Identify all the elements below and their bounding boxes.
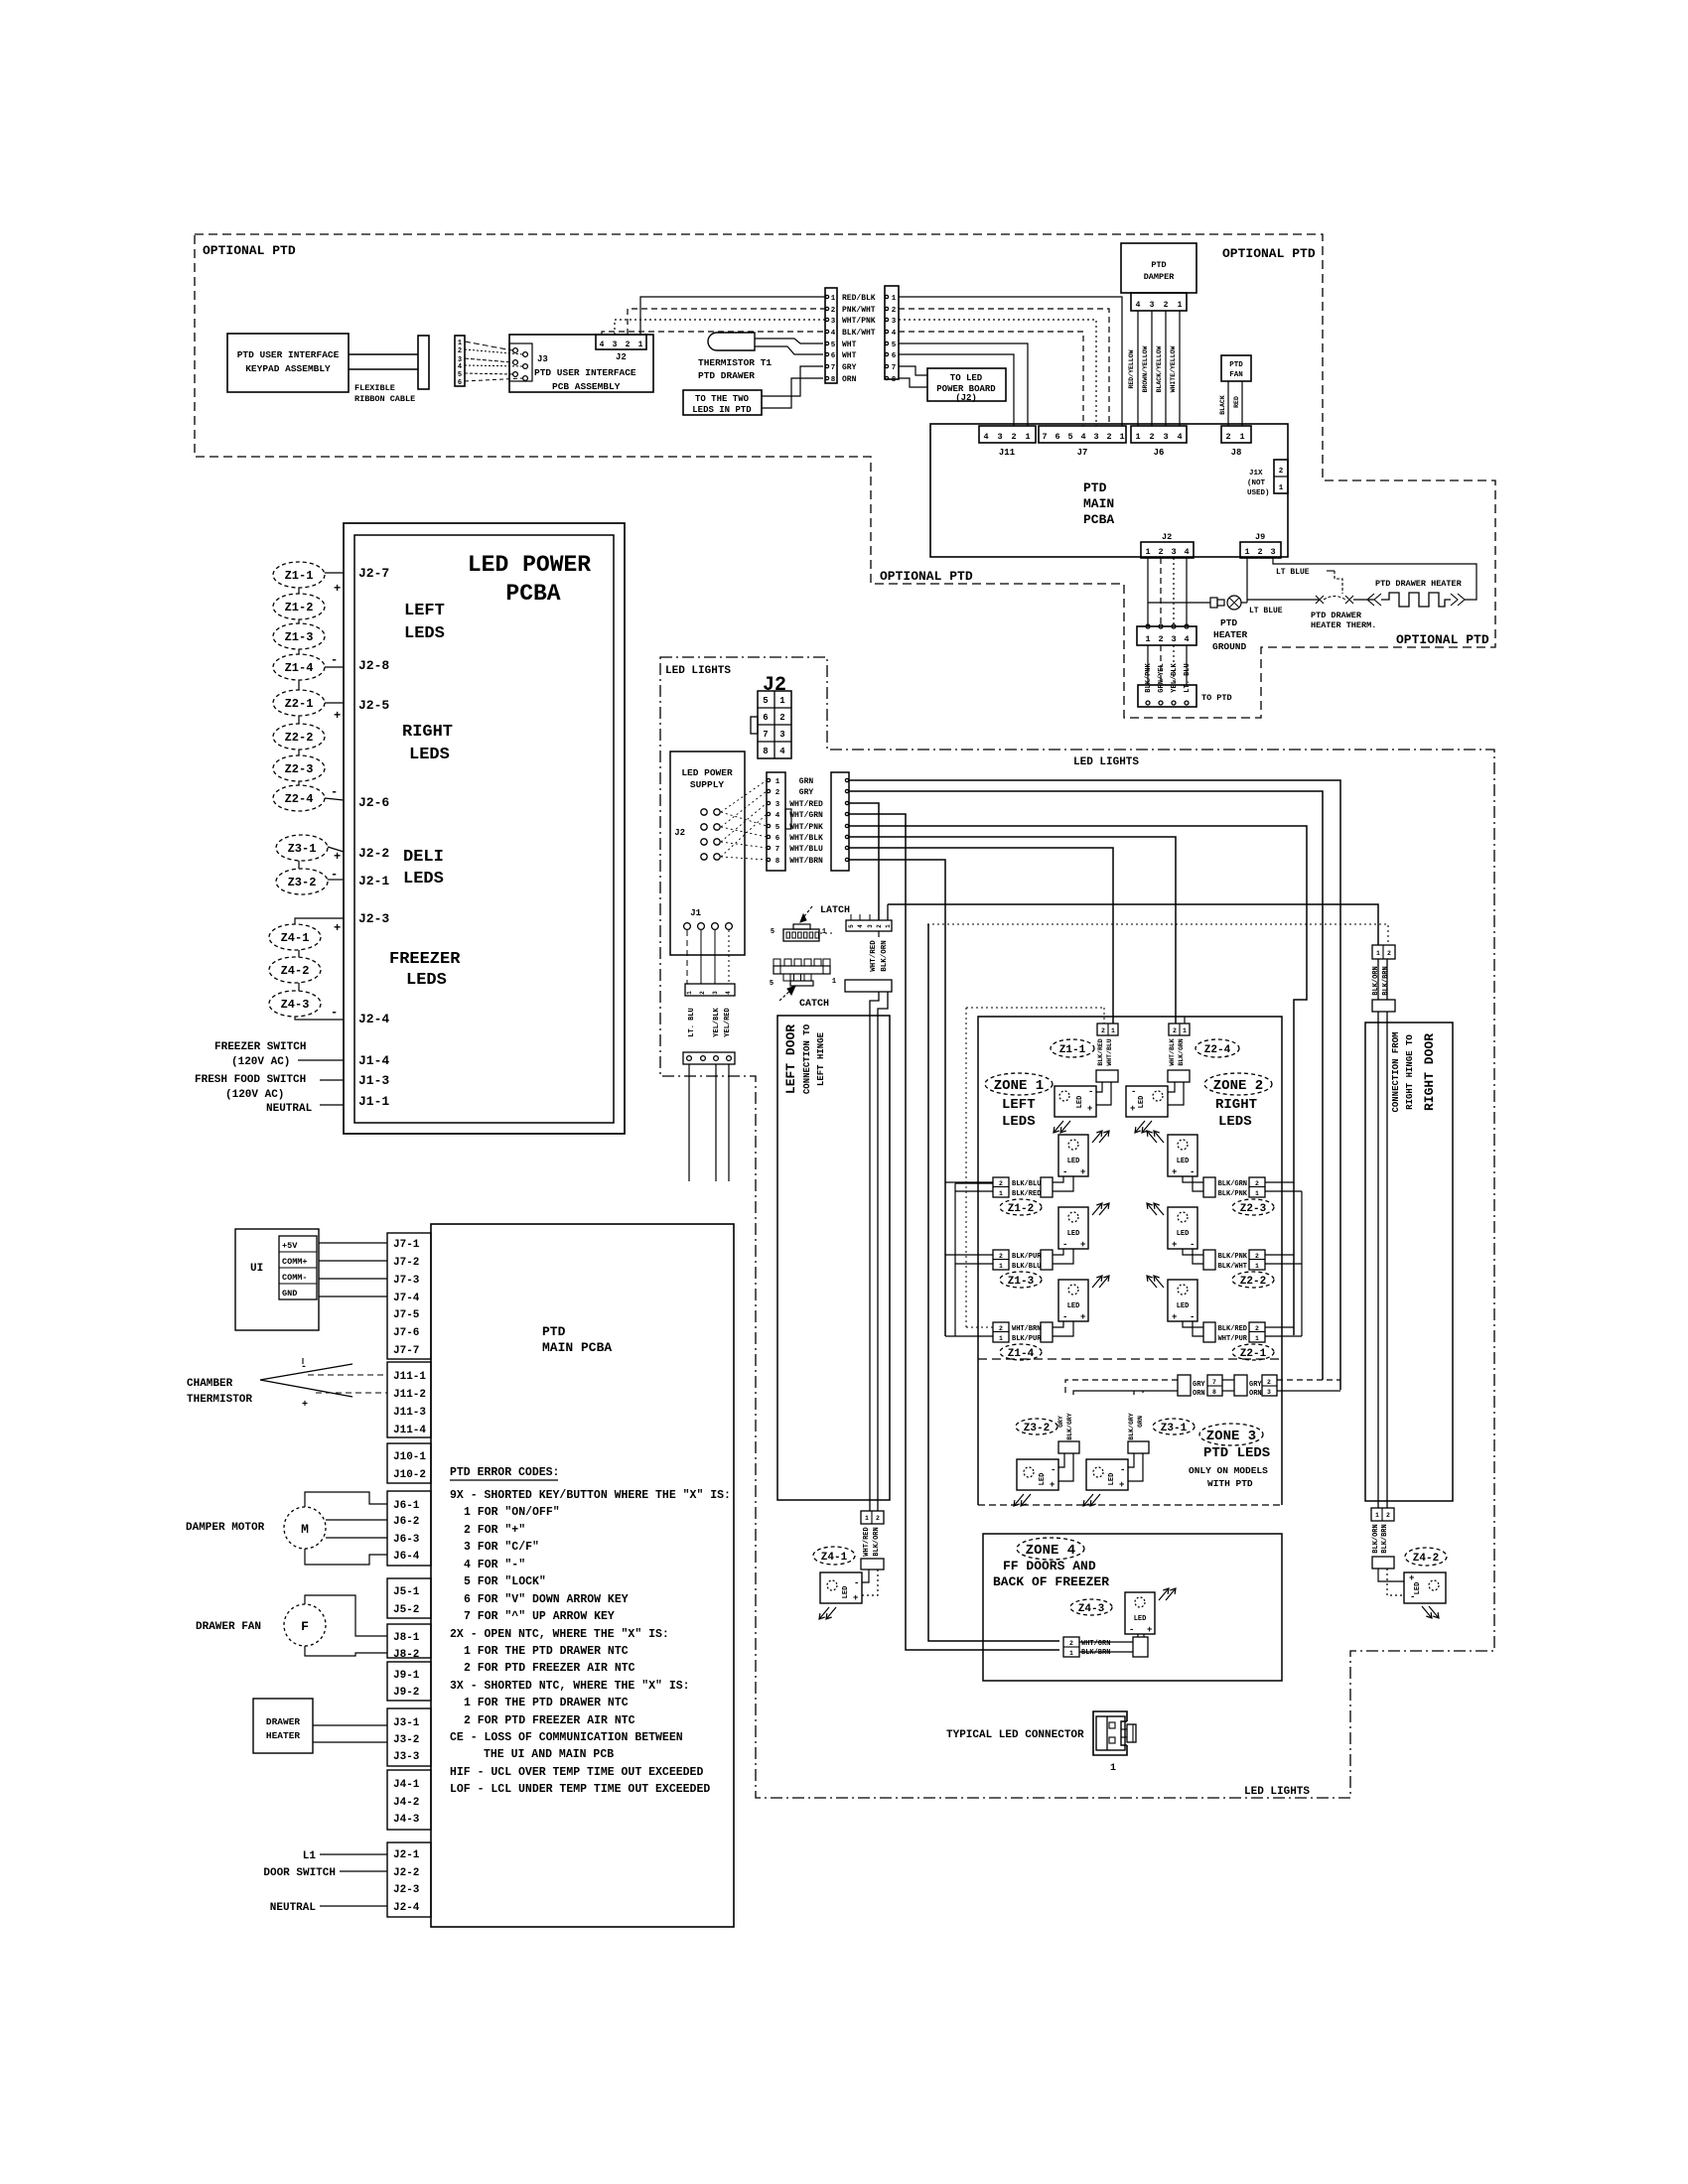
svg-text:-: - bbox=[1129, 1625, 1134, 1635]
svg-text:WHT/GRN: WHT/GRN bbox=[1081, 1640, 1110, 1648]
svg-text:LEDS: LEDS bbox=[404, 624, 445, 643]
svg-text:2: 2 bbox=[626, 341, 631, 349]
svg-text:2: 2 bbox=[1386, 1512, 1390, 1519]
svg-text:3: 3 bbox=[712, 991, 719, 995]
svg-text:MAIN: MAIN bbox=[1083, 496, 1114, 511]
svg-text:PNK/WHT: PNK/WHT bbox=[842, 306, 876, 315]
left bus second line bbox=[954, 1183, 956, 1336]
svg-text:1 FOR THE PTD DRAWER NTC: 1 FOR THE PTD DRAWER NTC bbox=[464, 1697, 629, 1709]
svg-text:-: - bbox=[1190, 1240, 1195, 1250]
svg-text:WHT/BLK: WHT/BLK bbox=[1169, 1038, 1176, 1065]
UI box bbox=[235, 1229, 319, 1330]
svg-text:PCB ASSEMBLY: PCB ASSEMBLY bbox=[552, 381, 621, 392]
PTD drawer heater thermal switch bbox=[1316, 596, 1324, 604]
svg-text:2X - OPEN NTC, WHERE THE "X" I: 2X - OPEN NTC, WHERE THE "X" IS: bbox=[450, 1628, 669, 1641]
svg-text:-: - bbox=[331, 785, 338, 799]
svg-text:FREEZER SWITCH: FREEZER SWITCH bbox=[214, 1041, 306, 1053]
svg-text:J7-2: J7-2 bbox=[393, 1257, 419, 1269]
svg-text:PTD: PTD bbox=[542, 1324, 566, 1339]
connector Z4-3 bbox=[1063, 1637, 1079, 1657]
wires Z1-3 to bus bbox=[945, 1254, 993, 1256]
svg-text:Z4-3: Z4-3 bbox=[281, 998, 310, 1012]
svg-text:PCBA: PCBA bbox=[1083, 512, 1114, 527]
svg-text:PTD: PTD bbox=[1151, 260, 1166, 270]
svg-text:CHAMBER: CHAMBER bbox=[187, 1378, 233, 1390]
connector J10 (lower PCBA) bbox=[387, 1443, 431, 1483]
svg-text:GRY: GRY bbox=[1057, 1416, 1064, 1428]
svg-text:1: 1 bbox=[775, 778, 780, 786]
svg-text:J3: J3 bbox=[537, 354, 548, 364]
svg-text:4: 4 bbox=[1177, 432, 1182, 442]
svg-text:4: 4 bbox=[779, 747, 785, 756]
svg-text:Z4-2: Z4-2 bbox=[281, 964, 310, 978]
svg-text:1: 1 bbox=[831, 295, 836, 303]
svg-text:J1-3: J1-3 bbox=[358, 1073, 389, 1088]
svg-text:ORN: ORN bbox=[1193, 1390, 1205, 1398]
svg-text:J3-1: J3-1 bbox=[393, 1717, 420, 1729]
svg-text:PTD USER INTERFACE: PTD USER INTERFACE bbox=[534, 367, 636, 378]
optional PTD boundary (dashed) bbox=[195, 234, 1495, 718]
svg-text:Z2-4: Z2-4 bbox=[285, 792, 314, 806]
svg-text:7: 7 bbox=[831, 364, 836, 372]
LED Z4-3 bbox=[1125, 1592, 1155, 1634]
svg-text:7: 7 bbox=[1212, 1379, 1216, 1386]
svg-text:YEL/BLK: YEL/BLK bbox=[713, 1007, 721, 1036]
wires J2 PCB up to connector rows bbox=[640, 297, 825, 335]
svg-text:CONNECTION FROM: CONNECTION FROM bbox=[1391, 1031, 1401, 1112]
to LED power board (J2) box bbox=[927, 368, 1006, 401]
svg-text:J4-1: J4-1 bbox=[393, 1779, 420, 1791]
to the two LEDs in PTD box bbox=[683, 390, 762, 415]
svg-text:-: - bbox=[331, 653, 338, 667]
node Z1-4 bbox=[273, 654, 325, 680]
svg-text:BLK/PNK: BLK/PNK bbox=[1218, 1190, 1248, 1198]
svg-text:LED: LED bbox=[1067, 1158, 1080, 1165]
svg-text:J2-4: J2-4 bbox=[358, 1012, 389, 1026]
svg-text:BLACK: BLACK bbox=[1219, 395, 1226, 415]
svg-text:2: 2 bbox=[1173, 1027, 1177, 1034]
svg-text:2: 2 bbox=[1255, 1253, 1259, 1260]
svg-text:OPTIONAL PTD: OPTIONAL PTD bbox=[203, 243, 296, 258]
svg-text:LED POWER: LED POWER bbox=[468, 552, 591, 578]
zone 1/2/3 outer box bbox=[978, 1017, 1282, 1505]
svg-text:1: 1 bbox=[1119, 432, 1124, 442]
svg-text:TO LED: TO LED bbox=[950, 373, 983, 383]
svg-text:-: - bbox=[1062, 1167, 1067, 1177]
svg-text:PCBA: PCBA bbox=[505, 581, 560, 607]
svg-text:HEATER: HEATER bbox=[1213, 629, 1248, 640]
svg-text:OPTIONAL PTD: OPTIONAL PTD bbox=[880, 569, 973, 584]
svg-text:-: - bbox=[1051, 1465, 1055, 1475]
svg-text:OPTIONAL PTD: OPTIONAL PTD bbox=[1396, 632, 1489, 647]
wires into left door bbox=[878, 931, 880, 937]
svg-text:1 FOR THE PTD DRAWER NTC: 1 FOR THE PTD DRAWER NTC bbox=[464, 1645, 629, 1658]
svg-text:NEUTRAL: NEUTRAL bbox=[270, 1902, 317, 1914]
5-pin door connector bbox=[846, 920, 892, 931]
svg-text:4: 4 bbox=[1080, 432, 1085, 442]
links between ovals bbox=[298, 588, 300, 594]
node Z2-1 bbox=[273, 690, 325, 716]
svg-text:J1X: J1X bbox=[1249, 470, 1263, 478]
LED lights dashed boundary bbox=[660, 657, 1494, 1798]
svg-text:+: + bbox=[1172, 1312, 1177, 1322]
svg-text:1: 1 bbox=[1375, 1512, 1379, 1519]
LED Z1-1 bbox=[1055, 1086, 1096, 1117]
connector J3 (lower PCBA) bbox=[387, 1708, 431, 1766]
svg-text:BLK/BRN: BLK/BRN bbox=[1081, 1649, 1110, 1657]
LED Z2-3 bbox=[1168, 1135, 1197, 1176]
svg-text:WHT/PNK: WHT/PNK bbox=[789, 823, 823, 832]
wires connector to PTD main PCBA J7/J11 bbox=[899, 297, 1122, 426]
svg-text:J7-7: J7-7 bbox=[393, 1345, 419, 1357]
svg-text:SUPPLY: SUPPLY bbox=[690, 779, 725, 790]
right door top connector 1/2 bbox=[1372, 945, 1395, 959]
svg-text:2: 2 bbox=[779, 713, 784, 723]
connector J7 bbox=[1039, 426, 1126, 443]
svg-text:LT. BLU: LT. BLU bbox=[688, 1008, 696, 1036]
svg-text:1: 1 bbox=[1111, 1027, 1115, 1034]
svg-text:2 FOR "+": 2 FOR "+" bbox=[464, 1524, 525, 1537]
ZONE 3 label bbox=[1199, 1424, 1263, 1445]
typical LED connector bbox=[1093, 1711, 1127, 1755]
dashed wires J3 to PCB circles bbox=[465, 341, 512, 350]
PTD damper bbox=[1121, 243, 1196, 293]
svg-text:PTD: PTD bbox=[1220, 617, 1237, 628]
svg-text:LED LIGHTS: LED LIGHTS bbox=[1244, 1786, 1310, 1798]
node Z1-1 bbox=[1051, 1039, 1094, 1057]
svg-text:Z2-1: Z2-1 bbox=[1240, 1348, 1267, 1360]
wires Z1-4 to bus bbox=[966, 1326, 993, 1328]
svg-text:THERMISTOR: THERMISTOR bbox=[187, 1394, 252, 1406]
svg-text:Z3-2: Z3-2 bbox=[288, 876, 317, 889]
svg-text:+: + bbox=[1172, 1167, 1177, 1177]
svg-text:Z2-2: Z2-2 bbox=[1240, 1276, 1266, 1288]
svg-text:J2-7: J2-7 bbox=[358, 566, 389, 581]
svg-text:+: + bbox=[1080, 1312, 1085, 1322]
bus connector (right bar) bbox=[831, 772, 849, 871]
svg-text:OPTIONAL PTD: OPTIONAL PTD bbox=[1222, 246, 1316, 261]
svg-text:3 FOR "C/F": 3 FOR "C/F" bbox=[464, 1541, 539, 1554]
zone 3 connector pair GRY/ORN bbox=[1178, 1375, 1191, 1396]
svg-text:3: 3 bbox=[867, 924, 874, 928]
PTD main PCBA (upper) bbox=[930, 424, 1288, 557]
svg-text:+: + bbox=[334, 582, 341, 596]
svg-text:J10-2: J10-2 bbox=[393, 1469, 426, 1481]
svg-text:WHT/BRN: WHT/BRN bbox=[789, 857, 823, 866]
wires Z2-3 to bus bbox=[1265, 1181, 1294, 1183]
connector Z1-4 bbox=[1041, 1322, 1053, 1342]
svg-text:J9-1: J9-1 bbox=[393, 1670, 420, 1682]
svg-text:TYPICAL LED CONNECTOR: TYPICAL LED CONNECTOR bbox=[946, 1729, 1084, 1741]
left door connection box bbox=[777, 1016, 890, 1500]
svg-text:-: - bbox=[1062, 1312, 1067, 1322]
svg-text:LED: LED bbox=[1177, 1302, 1190, 1310]
svg-text:RIGHT: RIGHT bbox=[1215, 1097, 1257, 1113]
svg-text:Z3-1: Z3-1 bbox=[288, 842, 317, 856]
svg-text:J6-4: J6-4 bbox=[393, 1551, 420, 1563]
wires Z1-2 to bus bbox=[945, 1181, 993, 1183]
svg-text:7 FOR "^" UP ARROW KEY: 7 FOR "^" UP ARROW KEY bbox=[464, 1610, 615, 1623]
svg-text:1: 1 bbox=[1239, 432, 1244, 442]
PTD user interface PCB assembly bbox=[509, 335, 653, 392]
svg-text:8: 8 bbox=[763, 747, 768, 756]
svg-text:GROUND: GROUND bbox=[1212, 641, 1247, 652]
connector J2 on PCB assembly bbox=[596, 335, 646, 349]
svg-text:+: + bbox=[1080, 1167, 1085, 1177]
svg-text:J1-4: J1-4 bbox=[358, 1053, 389, 1068]
svg-text:Z4-1: Z4-1 bbox=[821, 1552, 848, 1564]
svg-text:+: + bbox=[334, 921, 341, 935]
LED Z1-4 bbox=[1058, 1280, 1088, 1321]
svg-text:LEDS IN PTD: LEDS IN PTD bbox=[692, 405, 752, 415]
svg-text:BLK/WHT: BLK/WHT bbox=[842, 329, 876, 338]
wires UI to J7 bbox=[319, 1242, 387, 1244]
svg-text:5: 5 bbox=[763, 696, 768, 706]
PTD drawer heater element bbox=[1353, 599, 1374, 601]
svg-text:6: 6 bbox=[763, 713, 768, 723]
svg-text:LED: LED bbox=[1067, 1302, 1080, 1310]
svg-text:Z1-1: Z1-1 bbox=[1059, 1044, 1086, 1056]
svg-text:1: 1 bbox=[686, 991, 693, 995]
svg-text:LED LIGHTS: LED LIGHTS bbox=[665, 665, 731, 677]
svg-text:J6-3: J6-3 bbox=[393, 1534, 420, 1546]
svg-text:Z2-3: Z2-3 bbox=[1240, 1203, 1267, 1215]
svg-text:CE - LOSS OF COMMUNICATION BET: CE - LOSS OF COMMUNICATION BETWEEN bbox=[450, 1731, 683, 1744]
svg-text:ORN: ORN bbox=[1249, 1390, 1262, 1398]
svg-text:BLK/ORN: BLK/ORN bbox=[1372, 1524, 1380, 1553]
svg-text:LEDS: LEDS bbox=[403, 870, 444, 888]
svg-text:COMM+: COMM+ bbox=[282, 1257, 308, 1267]
right door bottom connector bbox=[1371, 1508, 1394, 1521]
svg-text:WHT/BLU: WHT/BLU bbox=[1106, 1038, 1113, 1065]
svg-text:1: 1 bbox=[1376, 950, 1380, 957]
svg-text:LED: LED bbox=[1138, 1096, 1146, 1109]
svg-text:+: + bbox=[1050, 1480, 1055, 1490]
svg-text:5: 5 bbox=[458, 371, 462, 379]
svg-text:1: 1 bbox=[832, 978, 836, 986]
svg-text:L1: L1 bbox=[303, 1850, 317, 1862]
svg-text:1 FOR "ON/OFF": 1 FOR "ON/OFF" bbox=[464, 1506, 560, 1519]
svg-text:Z2-2: Z2-2 bbox=[285, 731, 314, 745]
bus wires to zones bbox=[849, 780, 1340, 1390]
wires down to TO PTD connector bbox=[1147, 645, 1149, 685]
svg-text:Z1-2: Z1-2 bbox=[285, 601, 314, 614]
svg-text:LEDS: LEDS bbox=[1218, 1114, 1252, 1130]
svg-text:8: 8 bbox=[775, 858, 780, 866]
svg-text:CATCH: CATCH bbox=[799, 999, 829, 1010]
svg-text:1: 1 bbox=[1255, 1190, 1259, 1197]
svg-text:J2: J2 bbox=[674, 828, 685, 838]
svg-text:-: - bbox=[1190, 1167, 1195, 1177]
svg-text:-: - bbox=[301, 1362, 307, 1373]
svg-text:4: 4 bbox=[831, 330, 836, 338]
flexible ribbon cable bbox=[349, 353, 418, 355]
svg-text:LT BLUE: LT BLUE bbox=[1276, 568, 1310, 577]
svg-text:3: 3 bbox=[779, 730, 784, 740]
svg-text:J8: J8 bbox=[1231, 448, 1242, 458]
svg-text:7: 7 bbox=[892, 364, 897, 372]
svg-text:J2-3: J2-3 bbox=[358, 911, 389, 926]
svg-text:WHT/PUR: WHT/PUR bbox=[1218, 1335, 1248, 1343]
connector J8 (lower PCBA) bbox=[387, 1624, 431, 1658]
node Z1-1 bbox=[273, 562, 325, 588]
node Z2-4 bbox=[1196, 1039, 1239, 1057]
thermistor T1 bbox=[708, 333, 755, 350]
node Z1-4 bbox=[1000, 1344, 1042, 1360]
svg-text:Z1-1: Z1-1 bbox=[285, 569, 314, 583]
svg-text:DRAWER FAN: DRAWER FAN bbox=[196, 1621, 261, 1633]
svg-text:(120V AC): (120V AC) bbox=[231, 1056, 290, 1068]
svg-text:1: 1 bbox=[1069, 1650, 1073, 1657]
svg-text:(J2): (J2) bbox=[955, 393, 977, 403]
LED power supply box bbox=[670, 751, 745, 955]
LED Z2-1 bbox=[1168, 1280, 1197, 1321]
svg-text:MAIN PCBA: MAIN PCBA bbox=[542, 1340, 612, 1355]
latch wire to right door (dotted) bbox=[820, 932, 834, 934]
svg-text:2: 2 bbox=[775, 789, 780, 797]
svg-text:LT. BLU: LT. BLU bbox=[1184, 663, 1192, 692]
svg-text:+: + bbox=[1087, 1104, 1092, 1114]
svg-text:6: 6 bbox=[831, 352, 836, 360]
svg-text:BLK/GRN: BLK/GRN bbox=[1218, 1180, 1247, 1188]
svg-text:5: 5 bbox=[831, 341, 836, 349]
svg-text:BLK/PNK: BLK/PNK bbox=[1218, 1253, 1248, 1261]
svg-text:Z4-3: Z4-3 bbox=[1078, 1603, 1105, 1615]
svg-text:2: 2 bbox=[1225, 432, 1230, 442]
svg-text:-: - bbox=[331, 868, 338, 882]
node Z4-1 bbox=[269, 924, 321, 950]
svg-text:BLK/BLU: BLK/BLU bbox=[1012, 1180, 1041, 1188]
svg-text:5: 5 bbox=[775, 824, 780, 832]
svg-text:1: 1 bbox=[638, 341, 643, 349]
right bus second line bbox=[1301, 1191, 1303, 1336]
connector J11 (lower PCBA) bbox=[387, 1362, 431, 1437]
svg-text:J8-2: J8-2 bbox=[393, 1649, 419, 1661]
svg-text:2: 2 bbox=[999, 1325, 1003, 1332]
svg-text:2: 2 bbox=[1267, 1379, 1271, 1386]
svg-text:Z2-1: Z2-1 bbox=[285, 697, 314, 711]
svg-text:+: + bbox=[334, 709, 341, 723]
svg-text:-: - bbox=[1131, 1087, 1136, 1097]
svg-text:FF DOORS AND: FF DOORS AND bbox=[1003, 1559, 1096, 1573]
svg-text:J2-2: J2-2 bbox=[393, 1867, 419, 1879]
svg-text:BLK/GRN: BLK/GRN bbox=[1178, 1038, 1185, 1065]
svg-text:7: 7 bbox=[1042, 432, 1047, 442]
svg-text:GRY: GRY bbox=[842, 363, 857, 372]
svg-text:BLK/ORN: BLK/ORN bbox=[1372, 966, 1380, 995]
svg-text:5: 5 bbox=[892, 341, 897, 349]
connector block right (pins 1-8) bbox=[885, 286, 899, 379]
svg-text:2: 2 bbox=[876, 924, 883, 928]
svg-text:LEFT: LEFT bbox=[1002, 1097, 1036, 1113]
svg-text:ZONE 3: ZONE 3 bbox=[1206, 1429, 1256, 1444]
svg-text:J7-6: J7-6 bbox=[393, 1327, 419, 1339]
svg-text:BLK/BRN: BLK/BRN bbox=[1381, 1524, 1389, 1553]
ZONE 1 label bbox=[985, 1073, 1053, 1095]
svg-text:LED: LED bbox=[1039, 1473, 1047, 1486]
svg-text:J3-3: J3-3 bbox=[393, 1751, 420, 1763]
svg-text:BLK/GRY: BLK/GRY bbox=[1066, 1413, 1073, 1439]
svg-text:1: 1 bbox=[1145, 634, 1150, 644]
connector J4 (lower PCBA) bbox=[387, 1770, 431, 1830]
svg-text:Z3-1: Z3-1 bbox=[1161, 1423, 1188, 1434]
svg-text:1: 1 bbox=[1025, 432, 1030, 442]
svg-text:J6-1: J6-1 bbox=[393, 1500, 420, 1512]
svg-text:1: 1 bbox=[1183, 1027, 1187, 1034]
catch bbox=[774, 966, 830, 974]
node Z3-2 bbox=[276, 869, 328, 894]
svg-text:LED: LED bbox=[1177, 1158, 1190, 1165]
svg-text:DAMPER MOTOR: DAMPER MOTOR bbox=[186, 1522, 265, 1534]
svg-text:LEFT DOOR: LEFT DOOR bbox=[783, 1024, 798, 1094]
svg-text:+: + bbox=[1172, 1240, 1177, 1250]
svg-text:J11: J11 bbox=[999, 448, 1016, 458]
svg-text:J11-2: J11-2 bbox=[393, 1389, 426, 1401]
svg-text:1: 1 bbox=[1135, 432, 1140, 442]
svg-text:Z1-4: Z1-4 bbox=[285, 661, 314, 675]
svg-text:DAMPER: DAMPER bbox=[1144, 272, 1176, 282]
svg-text:FRESH FOOD SWITCH: FRESH FOOD SWITCH bbox=[195, 1074, 306, 1086]
svg-text:2: 2 bbox=[1158, 547, 1163, 557]
svg-text:2: 2 bbox=[1069, 1640, 1073, 1647]
svg-text:ZONE 4: ZONE 4 bbox=[1026, 1543, 1075, 1559]
svg-text:1: 1 bbox=[1145, 547, 1150, 557]
svg-text:Z1-3: Z1-3 bbox=[285, 630, 314, 644]
svg-text:BLK/ORN: BLK/ORN bbox=[873, 1527, 881, 1556]
svg-text:1: 1 bbox=[458, 340, 462, 347]
wires through right door bbox=[1377, 1012, 1379, 1501]
svg-text:LT BLUE: LT BLUE bbox=[1249, 607, 1283, 615]
svg-text:2: 2 bbox=[1101, 1027, 1105, 1034]
svg-text:LEFT: LEFT bbox=[404, 602, 445, 620]
svg-text:J11-4: J11-4 bbox=[393, 1425, 426, 1436]
svg-text:PTD DRAWER: PTD DRAWER bbox=[698, 370, 755, 381]
svg-text:3X - SHORTED NTC, WHERE THE "X: 3X - SHORTED NTC, WHERE THE "X" IS: bbox=[450, 1680, 690, 1693]
svg-text:J5-1: J5-1 bbox=[393, 1586, 420, 1598]
svg-text:1: 1 bbox=[1110, 1763, 1116, 1774]
svg-text:WHT/GRN: WHT/GRN bbox=[789, 811, 823, 820]
svg-text:LEDS: LEDS bbox=[409, 746, 450, 764]
connector Z1-2 bbox=[1041, 1177, 1053, 1197]
svg-text:Z4-2: Z4-2 bbox=[1413, 1553, 1439, 1565]
svg-text:WHT/BLU: WHT/BLU bbox=[789, 845, 823, 854]
node Z1-3 bbox=[273, 623, 325, 649]
node Z1-2 bbox=[1000, 1199, 1042, 1215]
svg-text:M: M bbox=[301, 1522, 309, 1537]
svg-text:4: 4 bbox=[775, 812, 780, 820]
svg-text:BLK/PUR: BLK/PUR bbox=[1012, 1335, 1042, 1343]
connector J6 bbox=[1131, 426, 1187, 443]
LED power PCBA outer box bbox=[344, 523, 625, 1134]
svg-text:-: - bbox=[854, 1578, 859, 1588]
svg-text:GRY: GRY bbox=[799, 788, 814, 797]
LED Z4-2 bbox=[1404, 1572, 1446, 1603]
J3 connector body on PCB bbox=[509, 343, 532, 381]
svg-text:-: - bbox=[1120, 1465, 1125, 1475]
svg-text:BROWN/YELLOW: BROWN/YELLOW bbox=[1142, 345, 1149, 392]
svg-text:+: + bbox=[1080, 1240, 1085, 1250]
svg-text:Z2-4: Z2-4 bbox=[1204, 1044, 1231, 1056]
svg-text:WHT: WHT bbox=[842, 341, 857, 349]
svg-text:BLK/RED: BLK/RED bbox=[1218, 1325, 1247, 1333]
svg-text:+5V: +5V bbox=[282, 1241, 298, 1251]
svg-text:J2-4: J2-4 bbox=[393, 1902, 420, 1914]
svg-text:1: 1 bbox=[999, 1263, 1003, 1270]
svg-text:KEYPAD ASSEMBLY: KEYPAD ASSEMBLY bbox=[245, 363, 331, 374]
heater ground connector 1234 bbox=[1137, 626, 1196, 645]
connector J9 bottom of PCBA bbox=[1240, 542, 1281, 558]
svg-text:3: 3 bbox=[997, 432, 1002, 442]
